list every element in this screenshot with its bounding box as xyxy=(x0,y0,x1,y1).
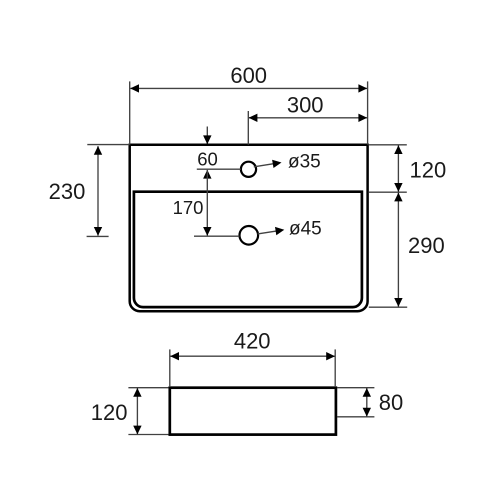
leader ø45 xyxy=(258,231,277,234)
tap hole circle ø35 xyxy=(241,162,256,177)
dimension 80 line xyxy=(337,388,374,417)
dimension 120 right line xyxy=(369,145,407,192)
dimension 120 right arrows xyxy=(394,145,402,192)
dimension 420 arrows xyxy=(170,352,335,360)
dimension 300 arrows xyxy=(249,114,368,122)
svg-text:120: 120 xyxy=(410,157,447,182)
pedestal rectangle (front view) xyxy=(170,388,336,435)
dimension 170 arrow xyxy=(203,227,211,236)
dimension 120 bottom line xyxy=(128,388,168,435)
dimension 170 line xyxy=(194,170,239,236)
svg-text:300: 300 xyxy=(287,93,324,118)
svg-text:120: 120 xyxy=(91,400,128,425)
svg-text:ø35: ø35 xyxy=(288,152,321,173)
svg-text:600: 600 xyxy=(230,63,267,88)
basin inner bowl outline (top view) xyxy=(134,192,362,307)
dimension 60 arrows xyxy=(203,135,211,178)
svg-text:290: 290 xyxy=(408,233,445,258)
svg-text:230: 230 xyxy=(49,179,86,204)
svg-text:170: 170 xyxy=(173,197,204,218)
dimension 230 line xyxy=(87,145,130,237)
dimension 600 arrows xyxy=(130,84,367,92)
dimension 80 arrows xyxy=(363,388,371,417)
svg-text:60: 60 xyxy=(197,148,218,169)
drain hole circle ø45 xyxy=(240,226,259,245)
dimension 60 pointer and bar xyxy=(197,127,241,170)
leader ø35 xyxy=(254,164,275,167)
dimension 420 line xyxy=(170,349,335,387)
dimension 120 bottom arrows xyxy=(133,388,141,434)
svg-text:420: 420 xyxy=(234,329,271,354)
svg-text:ø45: ø45 xyxy=(289,219,322,240)
svg-text:80: 80 xyxy=(379,390,403,415)
dimension 230 arrows xyxy=(94,146,102,236)
dimension 600 line xyxy=(130,81,368,144)
basin outer outline (top view) xyxy=(130,145,368,312)
dimension 290 line xyxy=(369,193,407,308)
dimension 290 arrows xyxy=(394,193,402,307)
dimension 300 line xyxy=(248,111,367,145)
